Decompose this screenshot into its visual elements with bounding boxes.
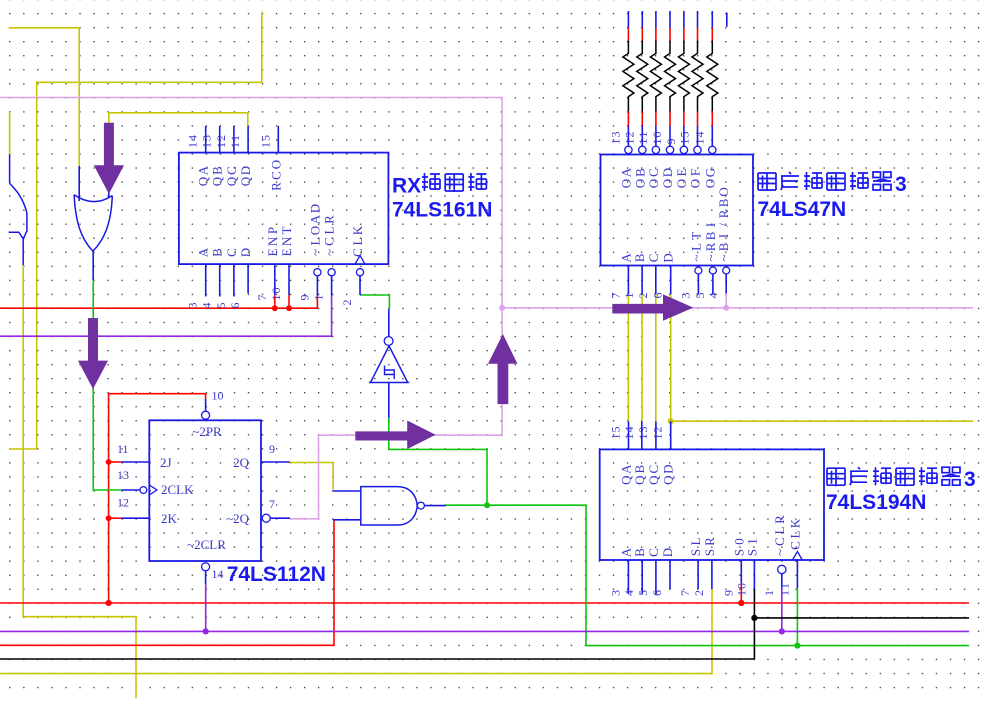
U4 top pin 13 QC [655,421,657,449]
wire black right horizontal [754,617,969,619]
U2 pin 9 ~LOAD [314,269,321,276]
wire green U2 CLK to inverter [360,295,389,309]
svg-text:~CLR: ~CLR [322,215,337,256]
U3 top pin 12 OB [639,146,646,153]
svg-text:4: 4 [706,293,720,299]
svg-text:~2Q: ~2Q [226,511,250,526]
svg-text:CLK: CLK [787,518,802,550]
chip U3 74LS47N box [601,155,754,266]
U2 pin 1 ~CLR [328,269,335,276]
U4 bottom pin 9 S0 [740,560,742,583]
wire pink net from left edge to ~2Q of U5 [0,98,502,519]
wire yellow U3 pin A to U4 QA [627,294,629,421]
svg-text:C: C [646,548,661,557]
U2 bottom pin 7 ENP [274,264,276,295]
U3 bottom pin 3 ~LT [695,267,702,274]
arrow right at inverter output [355,421,435,450]
svg-text:12: 12 [651,427,665,440]
svg-text:6: 6 [650,590,664,596]
svg-text:11: 11 [777,583,791,596]
svg-text:5: 5 [214,303,228,309]
resistor R3 [655,11,657,28]
U5 pin 9 2Q [261,461,290,463]
label user-side decoder 3 [758,173,776,191]
junction red left bus [106,600,112,606]
wire yellow bottom bus to U4 SR [0,589,712,674]
svg-text:2Q: 2Q [233,455,250,470]
wire blue floating stub top right [726,13,728,27]
U3 bottom pin 7 A [627,266,629,295]
U4 bottom pin 3 A [627,560,629,594]
junction black S1 [751,615,757,621]
svg-text:11: 11 [228,135,242,148]
wire green inverter output down to NAND output net [389,418,487,505]
wire red 2K stub link [109,517,122,519]
svg-text:~LT: ~LT [688,232,703,262]
svg-text:D: D [660,548,675,557]
svg-text:6: 6 [228,303,242,309]
junction purple ~CLR [779,628,785,634]
svg-text:14: 14 [622,427,636,440]
svg-text:A: A [618,547,633,557]
U4 top pin 14 QB [641,421,643,449]
svg-text:A: A [196,247,211,257]
wire yellow vertical net (top stub down left side) [9,12,261,449]
NAND gate [361,487,418,525]
junction red 2K [106,515,112,521]
svg-text:ENP: ENP [265,227,280,257]
svg-text:9: 9 [664,139,678,145]
wire yellow 2Q to NAND top input [290,463,333,490]
svg-text:RCO: RCO [268,160,283,191]
U4 pin 11 CLK [796,560,798,588]
U5 pin 10 ~2PR [202,411,210,419]
wire green NAND output bus [446,505,969,645]
U2 bottom pin 5 C [233,264,235,296]
wire pink horizontal to right edge [502,307,973,309]
svg-text:13: 13 [200,135,214,148]
svg-text:74LS112N: 74LS112N [227,563,326,586]
U3 top pin 10 OD [666,146,673,153]
U3 bottom pin 5 ~RBI [709,267,716,274]
svg-text:7: 7 [678,590,692,596]
svg-text:3: 3 [186,303,200,309]
svg-text:C: C [224,248,239,257]
OR gate (pointing down) [74,195,112,251]
arrow down onto green wire [78,318,108,389]
U2 pin 2 CLK [356,269,363,276]
U3 bottom pin 6 D [670,266,672,295]
junction green NAND output [484,502,490,508]
inverter (Schmitt trigger) [388,309,390,336]
arrow down onto OR gate [94,123,124,194]
wire red long horizontal bus [0,602,969,604]
U4 bottom pin 7 SL [697,560,699,589]
svg-text:12: 12 [214,135,228,148]
wire red bus to NAND bottom input [0,520,334,645]
svg-text:6: 6 [651,293,665,299]
junction green CLK [794,643,800,649]
svg-text:11: 11 [636,132,650,145]
junction pink at ~BI/RBO [723,305,729,311]
junction yellow QD node [668,418,674,424]
svg-text:9: 9 [269,442,275,456]
U3 bottom pin 1 B [641,266,643,295]
svg-text:OD: OD [660,168,675,188]
svg-text:74LS47N: 74LS47N [758,198,847,221]
svg-text:OG: OG [702,168,717,188]
svg-text:3: 3 [964,468,976,491]
U2 top pin 13 QB [219,126,221,153]
svg-text:2CLK: 2CLK [161,482,194,497]
U4 bottom pin 2 SR [711,560,713,589]
wire purple U4 ~CLR drop [781,588,783,631]
wire yellow stub into left edge gate input [9,112,11,154]
wire yellow from QD junction to right edge [671,420,973,422]
svg-text:13: 13 [117,468,129,482]
U4 bottom pin 6 D [669,560,671,589]
svg-text:5: 5 [636,590,650,596]
wire yellow OR right input to U2 pin 11 [109,113,248,150]
svg-text:B: B [210,248,225,257]
svg-text:D: D [661,253,676,262]
junction red ENP [272,305,278,311]
svg-text:3: 3 [895,173,907,196]
svg-text:1: 1 [622,293,636,299]
chip U2 74LS161N box [179,153,389,265]
wire yellow U3 pin C to U4 QC [655,294,657,421]
label user-side register 3 [827,468,845,486]
svg-text:3: 3 [678,293,692,299]
svg-text:2J: 2J [160,455,172,470]
U5 pin 13 2CLK [140,487,147,494]
svg-text:14: 14 [186,135,200,148]
wire red ENP drop [274,295,276,308]
svg-text:11: 11 [117,442,129,456]
svg-text:2K: 2K [161,511,178,526]
svg-text:QD: QD [661,465,676,485]
svg-text:10: 10 [734,583,748,596]
svg-text:15: 15 [609,427,623,440]
U4 bottom pin 5 C [655,560,657,594]
wire black bottom bus to U4 S1 [0,589,754,659]
U4 bottom pin 4 B [641,560,643,594]
U4 pin 1 ~CLR [778,565,786,573]
resistor R4 [669,11,671,28]
resistor R2 [641,11,643,28]
U4 top pin 15 QA [628,421,630,449]
svg-text:15: 15 [258,135,272,148]
chip U4 74LS194N box [600,449,824,560]
svg-text:74LS161N: 74LS161N [392,198,492,221]
svg-text:C: C [646,254,661,263]
U2 top pin 14 QA [205,126,207,153]
U5 pin 11 2J [122,461,150,463]
U3 top pin 13 OA [625,146,632,153]
svg-text:RX: RX [392,174,421,197]
svg-text:10: 10 [269,288,283,301]
svg-text:14: 14 [692,132,706,145]
wire yellow U3 pin B to U4 QB [641,294,643,421]
svg-text:10: 10 [212,389,224,403]
wire purple to U2 ~CLR [0,296,332,336]
chip U5 74LS112N box [149,420,261,561]
svg-text:ENT: ENT [279,226,294,256]
resistor R6 [697,11,699,28]
svg-text:4: 4 [622,590,636,596]
wire pink ~BI/RBO drop [725,293,727,307]
U4 top pin 12 QD [670,421,672,449]
U3 top pin 9 OE [680,146,687,153]
U5 pin 14 ~2CLR [202,563,210,571]
svg-text:4: 4 [200,303,214,309]
svg-text:13: 13 [608,132,622,145]
svg-text:2: 2 [340,300,354,306]
wire red 2J stub link [109,461,122,463]
svg-text:12: 12 [622,132,636,145]
svg-text:~2CLR: ~2CLR [187,537,226,552]
resistor R1 [627,11,629,28]
svg-text:14: 14 [212,567,224,581]
svg-text:9: 9 [721,590,735,596]
U3 bottom pin 4 ~BI/RBO [723,267,730,274]
svg-text:1: 1 [762,590,776,596]
junction red S0 [738,600,744,606]
U3 top pin 14 OG [709,146,716,153]
svg-text:SR: SR [702,537,717,556]
junction purple ~2CLR [203,628,209,634]
svg-text:D: D [238,248,253,257]
U3 bottom pin 2 C [655,266,657,295]
U2 top pin 12 QC [233,126,235,153]
svg-text:1: 1 [312,295,326,301]
U2 bottom pin 3 A [205,264,207,296]
U2 top pin 15 RCO [277,126,279,153]
svg-text:CLK: CLK [350,225,365,257]
svg-text:~CLR: ~CLR [772,515,787,556]
U5 pin 12 2K [122,517,150,519]
svg-text:15: 15 [678,132,692,145]
arrow right on pink bus [612,294,693,321]
svg-text:7: 7 [608,293,622,299]
wire red to U2 ~LOAD [0,296,317,308]
resistor R5 [683,11,685,28]
svg-text:10: 10 [650,132,664,145]
wire red U4 S0 drop [740,583,742,603]
svg-text:3: 3 [608,590,622,596]
wire purple long horizontal bus [0,630,969,632]
junction red ENT [286,305,292,311]
wire green OR output to 2CLK [93,280,121,490]
svg-text:QA: QA [196,165,211,186]
wire red U5 ~2PR loop [109,394,206,603]
wire yellow from left gate output down to bottom [23,265,136,698]
U5 pin 7 ~2Q [262,514,270,522]
U2 bottom pin 10 ENT [288,264,290,295]
wire red ENT drop [288,295,290,308]
svg-text:7: 7 [269,497,275,511]
svg-text:OA: OA [618,167,633,188]
svg-text:2: 2 [636,293,650,299]
svg-text:12: 12 [117,496,129,510]
partial OR gate at left edge [9,154,27,265]
svg-text:7: 7 [255,295,269,301]
svg-text:9: 9 [297,295,311,301]
wire green U4 CLK drop [796,588,798,646]
junction red 2J [106,459,112,465]
resistor R7 [711,11,713,28]
svg-text:74LS194N: 74LS194N [826,491,926,514]
arrow up on pink wire [488,334,517,404]
wire yellow U3 pin D to U4 QD [670,294,672,421]
wire yellow top-left to OR gate left input [9,28,80,166]
svg-text:QD: QD [238,166,253,186]
U2 top pin 11 QD [247,126,249,153]
junction pink node [499,305,505,311]
svg-text:13: 13 [636,427,650,440]
svg-text:~2PR: ~2PR [192,424,222,439]
U4 bottom pin 10 S1 [753,560,755,589]
U3 top pin 15 OF [694,146,701,153]
U3 top pin 11 OC [652,146,659,153]
svg-text:2: 2 [692,590,706,596]
U2 bottom pin 6 D [247,264,249,293]
wire purple U5 ~2CLR drop [205,584,207,631]
svg-text:5: 5 [693,293,707,299]
U2 bottom pin 4 B [219,264,221,296]
